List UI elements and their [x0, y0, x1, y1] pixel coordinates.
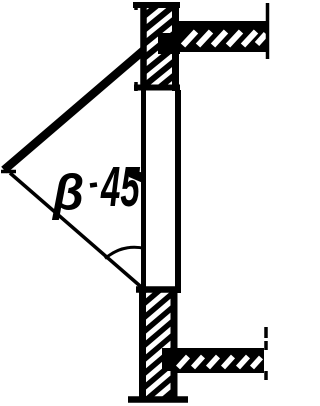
- svg-text:45: 45: [100, 155, 140, 219]
- svg-text:β: β: [51, 165, 84, 221]
